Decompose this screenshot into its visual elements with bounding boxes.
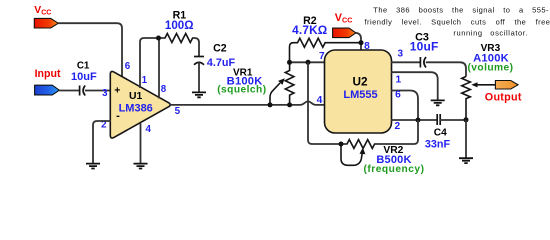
IC U2 LM555 <box>325 50 392 133</box>
ground (C2) <box>192 92 206 97</box>
svg-text:4.7KΩ: 4.7KΩ <box>292 23 327 37</box>
svg-text:1: 1 <box>142 75 148 86</box>
svg-text:4: 4 <box>145 124 151 135</box>
svg-text:friendly level. Squelch cuts o: friendly level. Squelch cuts off the fre… <box>365 17 550 26</box>
potentiometer VR2 <box>341 140 424 175</box>
svg-text:(frequency): (frequency) <box>364 164 425 175</box>
Vcc connector (left) <box>34 5 58 28</box>
wire R1 to C2 <box>195 38 200 56</box>
svg-text:2: 2 <box>394 121 400 132</box>
capacitor C1 <box>71 61 97 96</box>
wire U1 pin 1 up to R1 <box>140 38 159 88</box>
node C4/VR3 junction <box>464 117 469 122</box>
ground (U1 pin 2) <box>86 164 100 169</box>
svg-text:3: 3 <box>102 88 108 99</box>
wire C3 to VR3 top <box>426 62 466 76</box>
wire VR3 bottom to ground <box>465 120 467 158</box>
Input connector <box>35 68 61 95</box>
potentiometer VR3 <box>462 43 514 120</box>
svg-text:3: 3 <box>398 48 404 59</box>
capacitor C4 <box>425 114 451 151</box>
wire Vcc to U2 pin 8 <box>356 33 361 50</box>
node VR2 branch junction <box>306 60 311 65</box>
wire pin7 branch down to VR2 left <box>308 62 341 144</box>
node VR1 bottom on output wire <box>287 102 292 107</box>
wire U1 pin 2 to ground <box>93 121 111 163</box>
svg-text:The 386 boosts the signal to a: The 386 boosts the signal to a 555- <box>373 6 549 15</box>
wire C4 to VR3 bottom node <box>440 119 466 121</box>
wire U1 pin 8 up to R1 node <box>158 38 160 99</box>
svg-text:U1: U1 <box>129 91 143 102</box>
Vcc connector (near U2) <box>333 12 356 38</box>
capacitor C3 <box>410 32 439 68</box>
capacitor C2 <box>194 42 236 69</box>
wire U1 pin 5 to U2 pin 4 (with hop) <box>171 101 326 105</box>
ground (U1 pin 4) <box>134 164 148 169</box>
svg-text:C4: C4 <box>434 127 447 138</box>
svg-text:1: 1 <box>395 74 401 85</box>
svg-text:4.7uF: 4.7uF <box>207 57 236 69</box>
svg-text:C2: C2 <box>213 42 227 54</box>
wire Input to C1 <box>59 90 79 92</box>
potentiometer VR1 <box>217 62 294 105</box>
svg-text:VCC: VCC <box>34 5 51 16</box>
wire U2 pin 6 down to pin 2 node <box>391 91 418 121</box>
svg-text:LM555: LM555 <box>343 89 377 101</box>
svg-text:8: 8 <box>161 84 167 95</box>
ground (VR3/C4) <box>459 158 473 163</box>
wire pin2 node down to VR2 right <box>377 120 418 144</box>
svg-text:10uF: 10uF <box>71 71 97 83</box>
node VR1 wiper on output wire <box>268 102 273 107</box>
svg-text:6: 6 <box>125 61 131 72</box>
svg-text:10uF: 10uF <box>410 40 439 54</box>
wire C2 to ground <box>198 63 200 92</box>
svg-text:33nF: 33nF <box>425 139 451 151</box>
wire U1 pin 4 to ground <box>140 124 142 164</box>
Output connector <box>485 81 522 104</box>
node VR2 left junction <box>339 142 344 147</box>
wire U2 pin 1 to ground <box>391 72 438 100</box>
wire Vcc to U1 pin 6 <box>58 23 122 78</box>
svg-text:4: 4 <box>317 95 323 106</box>
svg-text:running oscillator.: running oscillator. <box>453 28 528 37</box>
resistor R2 <box>290 15 362 63</box>
svg-text:LM386: LM386 <box>119 103 153 115</box>
svg-text:(volume): (volume) <box>467 62 513 73</box>
svg-text:VCC: VCC <box>335 12 353 24</box>
wire pin7 rail <box>290 61 326 63</box>
svg-text:6: 6 <box>395 89 401 100</box>
node pin2/pin6/VR2 junction <box>416 118 421 123</box>
svg-text:(squelch): (squelch) <box>217 85 266 96</box>
svg-text:100Ω: 100Ω <box>165 19 194 32</box>
node R2/VR1 junction <box>287 60 292 65</box>
svg-text:5: 5 <box>175 106 181 117</box>
resistor R1 <box>159 10 196 43</box>
svg-text:Output: Output <box>485 91 522 103</box>
wire U2 pin 3 to C3 <box>391 61 420 63</box>
svg-text:U2: U2 <box>352 74 368 88</box>
svg-text:Input: Input <box>35 68 61 80</box>
node pin1/pin8 junction <box>156 36 161 41</box>
svg-text:+: + <box>114 85 120 97</box>
wire U2 pin 2 to C4 <box>391 119 437 121</box>
wire C1 to U1 pin 3 <box>85 90 111 92</box>
op-amp U1 LM386 <box>110 71 170 138</box>
ground (U2 pin 1) <box>431 100 445 105</box>
node Vcc/R2/pin8 junction <box>359 40 364 45</box>
